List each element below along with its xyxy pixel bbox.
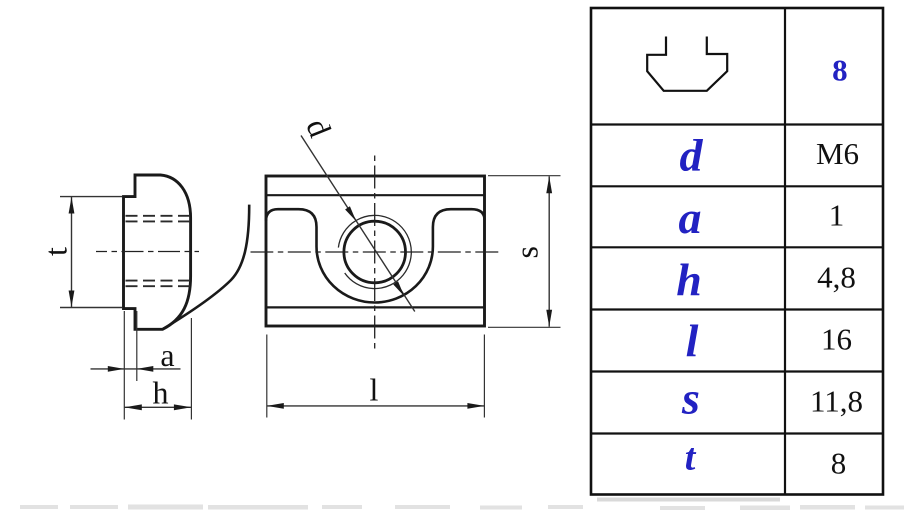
hidden thread dashed lines (lower pair) (126, 281, 191, 287)
svg-text:l: l (686, 315, 699, 366)
column divider (784, 8, 786, 494)
svg-text:s: s (681, 372, 700, 423)
a arrow (right-pointing, outside left) (108, 366, 125, 372)
svg-text:l: l (370, 372, 379, 408)
svg-text:M6: M6 (816, 136, 859, 171)
left view horizontal centerline (96, 251, 199, 253)
inner bottom line (266, 306, 485, 308)
d arrow lower (tip on slot arc) (393, 281, 404, 296)
s arrow up (546, 176, 552, 193)
horizontal centerline (251, 251, 501, 253)
outer rectangle (266, 176, 485, 326)
s extension lines (488, 176, 561, 328)
t arrow up (69, 197, 75, 214)
s arrow down (546, 310, 552, 327)
a extension lines (124, 311, 137, 420)
svg-text:8: 8 (831, 446, 847, 481)
svg-text:h: h (153, 375, 169, 411)
svg-text:d: d (680, 129, 704, 180)
l extension lines (267, 335, 485, 418)
h arrow left (124, 404, 142, 410)
a arrow (left-pointing, outside right) (137, 366, 154, 372)
svg-text:4,8: 4,8 (817, 260, 856, 295)
svg-text:8: 8 (832, 53, 848, 88)
bottom scan smudge (20, 498, 904, 511)
hidden thread dashed lines (upper pair) (126, 216, 191, 222)
svg-text:t: t (38, 247, 74, 256)
svg-text:h: h (676, 254, 702, 305)
svg-text:a: a (160, 337, 174, 373)
h arrow right (174, 404, 192, 410)
h extension line (190, 318, 192, 420)
dimension t line (71, 197, 73, 307)
svg-text:1: 1 (829, 198, 845, 233)
dimension l line (267, 405, 485, 407)
threaded hole inner circle (344, 221, 406, 283)
nut body side profile outline (124, 175, 191, 329)
dimension d diagonal line (301, 136, 415, 312)
svg-text:11,8: 11,8 (810, 384, 863, 419)
slot cutout contour (266, 209, 485, 302)
vertical centerline (374, 154, 376, 349)
dimension h line (124, 406, 191, 408)
dimension a line (91, 368, 181, 370)
thread outer arc (338, 215, 411, 288)
dimension t extension lines (60, 197, 122, 308)
svg-text:a: a (679, 192, 702, 243)
row lines (591, 125, 883, 434)
svg-text:d: d (299, 113, 338, 141)
t-slot profile icon (647, 37, 727, 91)
l arrow left (267, 403, 284, 409)
svg-text:s: s (509, 246, 545, 258)
l arrow right (467, 403, 484, 409)
spring leaf curve (163, 205, 249, 329)
d arrow upper (tip on thread circle) (345, 206, 356, 221)
t arrow down (69, 291, 75, 308)
dimension s line (548, 176, 550, 326)
svg-text:t: t (685, 437, 697, 479)
inner top line (266, 194, 485, 196)
svg-text:16: 16 (821, 322, 852, 357)
table border (591, 8, 883, 495)
